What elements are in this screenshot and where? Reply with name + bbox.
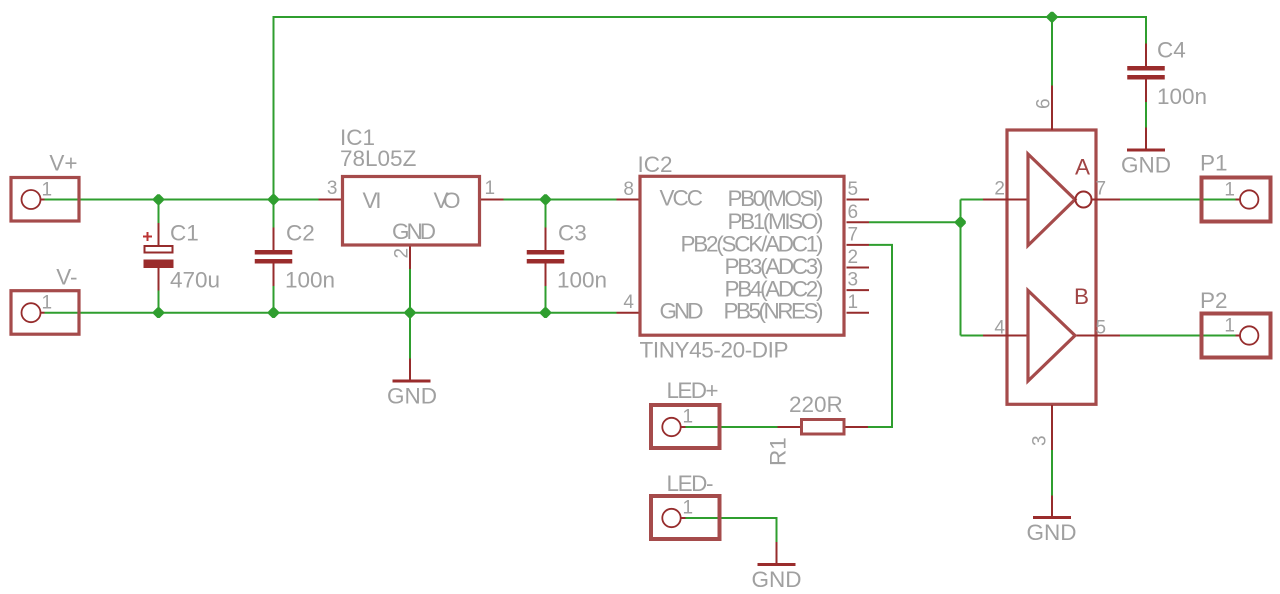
ground symbol below IC1: [387, 359, 437, 409]
svg-text:C3: C3: [558, 221, 587, 246]
pad circle LED+: [662, 418, 680, 436]
svg-text:5: 5: [1096, 318, 1107, 339]
junction V+ C3: [540, 194, 551, 205]
svg-text:4: 4: [994, 318, 1005, 339]
wire A output to P1: [1120, 199, 1236, 201]
svg-text:1: 1: [42, 180, 53, 201]
svg-text:PB0(MOSI): PB0(MOSI): [728, 186, 824, 211]
svg-text:1: 1: [1224, 180, 1235, 201]
capacitor C4: [1127, 38, 1207, 110]
wire LED+ to R1: [686, 426, 778, 428]
C3 plates: [527, 250, 565, 255]
svg-text:P1: P1: [1200, 151, 1228, 176]
ground symbol below C4: [1121, 128, 1171, 178]
wire driver pin6 drop: [1051, 17, 1053, 86]
voltage regulator IC1 78L05Z: [319, 125, 504, 269]
driver channel B triangle: [1028, 284, 1089, 381]
capacitor C2: [255, 221, 335, 293]
C1 positive plate: [145, 246, 173, 253]
capacitor C3: [527, 221, 607, 293]
svg-text:78L05Z: 78L05Z: [340, 146, 417, 171]
svg-text:GND: GND: [752, 567, 802, 592]
wire GND V- row: [45, 312, 617, 314]
R1 body: [802, 420, 845, 435]
svg-text:VI: VI: [363, 188, 382, 213]
svg-text:TINY45-20-DIP: TINY45-20-DIP: [640, 338, 789, 363]
svg-text:PB5(NRES): PB5(NRES): [724, 299, 824, 324]
svg-text:1: 1: [485, 178, 496, 199]
capacitor C1: [143, 221, 220, 293]
wire C4 bottom to gnd: [1145, 102, 1147, 128]
svg-text:R1: R1: [766, 437, 791, 466]
svg-text:GND: GND: [392, 219, 436, 244]
pad circle P1: [1240, 190, 1258, 208]
svg-text:3: 3: [1030, 435, 1051, 446]
svg-text:A: A: [1075, 155, 1090, 180]
driver pins: [983, 86, 1120, 451]
svg-text:GND: GND: [387, 384, 437, 409]
svg-text:3: 3: [848, 270, 859, 291]
pad circle V-: [22, 303, 41, 322]
pad circle LED-: [662, 509, 680, 527]
svg-text:LED-: LED-: [667, 471, 714, 496]
svg-text:V-: V-: [56, 265, 77, 290]
svg-text:GND: GND: [1027, 520, 1077, 545]
svg-text:B: B: [1074, 284, 1089, 309]
svg-text:VO: VO: [434, 188, 461, 213]
C1 plus mark: [143, 232, 152, 241]
inverting bubble A: [1076, 192, 1092, 208]
svg-text:GND: GND: [660, 299, 704, 324]
svg-text:VCC: VCC: [660, 186, 704, 211]
svg-text:PB1(MISO): PB1(MISO): [728, 209, 824, 234]
svg-text:100n: 100n: [285, 268, 335, 293]
terminal P1: [1200, 151, 1271, 222]
driver channel A triangle: [1028, 154, 1092, 246]
ground bar: [393, 380, 431, 383]
svg-text:1: 1: [1224, 316, 1235, 337]
svg-text:1: 1: [683, 407, 694, 428]
svg-text:IC2: IC2: [638, 152, 673, 177]
svg-text:2: 2: [848, 247, 859, 268]
junction V- C3: [540, 307, 551, 318]
terminal LED-: [651, 471, 720, 539]
wire C1 column: [158, 200, 160, 313]
svg-text:LED+: LED+: [667, 378, 719, 403]
svg-text:220R: 220R: [789, 392, 843, 417]
svg-text:C4: C4: [1157, 38, 1186, 63]
driver IC box: [983, 86, 1120, 451]
svg-text:6: 6: [1034, 98, 1055, 109]
svg-text:8: 8: [623, 179, 634, 200]
wire driver pin3 to gnd: [1051, 450, 1053, 496]
svg-text:4: 4: [623, 292, 634, 313]
C2 plates: [255, 250, 293, 255]
svg-text:PB3(ADC3): PB3(ADC3): [725, 254, 824, 279]
svg-text:100n: 100n: [557, 268, 607, 293]
IC1 body: [343, 177, 480, 246]
svg-text:3: 3: [327, 178, 338, 199]
svg-text:2: 2: [392, 248, 413, 259]
IC2 body: [640, 176, 844, 335]
C4 plates: [1127, 66, 1165, 71]
svg-text:P2: P2: [1200, 288, 1228, 313]
junction V+ C1: [153, 194, 164, 205]
svg-text:C1: C1: [170, 221, 199, 246]
terminal V-: [11, 265, 79, 335]
ground bar: [1127, 149, 1165, 152]
wire VCC net top rail: [274, 17, 1147, 200]
ground bar: [1033, 516, 1071, 519]
wire V+ row: [45, 199, 319, 201]
svg-text:100n: 100n: [1157, 84, 1207, 109]
pad circle P2: [1240, 326, 1258, 344]
svg-text:7: 7: [848, 224, 859, 245]
junction V- C1: [153, 307, 164, 318]
terminal LED+: [651, 378, 720, 448]
wire C3 column: [545, 200, 547, 313]
svg-text:PB2(SCK/ADC1): PB2(SCK/ADC1): [681, 231, 824, 256]
wire LED- to gnd: [686, 518, 777, 542]
pad circle V+: [22, 190, 41, 209]
ground symbol below LED-: [752, 542, 802, 592]
wire IC1 out to IC2 vcc: [504, 199, 617, 201]
svg-text:V+: V+: [49, 151, 77, 176]
svg-text:1: 1: [42, 293, 53, 314]
svg-text:1: 1: [848, 292, 859, 313]
terminal V+: [11, 151, 79, 222]
svg-text:7: 7: [1096, 179, 1107, 200]
svg-text:2: 2: [994, 179, 1005, 200]
C1 negative plate: [144, 260, 174, 269]
svg-text:470u: 470u: [170, 268, 220, 293]
svg-text:C2: C2: [286, 221, 315, 246]
resistor R1 220R: [766, 392, 869, 466]
microcontroller IC2 TINY45-20-DIP: [617, 152, 870, 363]
ground symbol below driver: [1027, 496, 1077, 546]
junction V- C2: [268, 307, 279, 318]
wire B output to P2: [1120, 335, 1236, 337]
wire driver input bus: [961, 200, 984, 336]
wire C2 column: [273, 200, 275, 313]
wire PB2 to R1: [868, 245, 892, 427]
junction V+ C2: [268, 194, 279, 205]
wire PB1 to drivers: [869, 221, 961, 223]
ground bar: [758, 563, 796, 566]
svg-text:1: 1: [683, 498, 694, 519]
svg-text:GND: GND: [1121, 153, 1171, 178]
svg-text:5: 5: [848, 179, 859, 200]
junction driver input split: [955, 217, 966, 228]
wire IC1 gnd column: [409, 269, 411, 359]
terminal P2: [1200, 288, 1271, 358]
junction top rail pin6: [1047, 12, 1058, 23]
svg-text:6: 6: [848, 202, 859, 223]
junction V- IC1 gnd: [405, 307, 416, 318]
